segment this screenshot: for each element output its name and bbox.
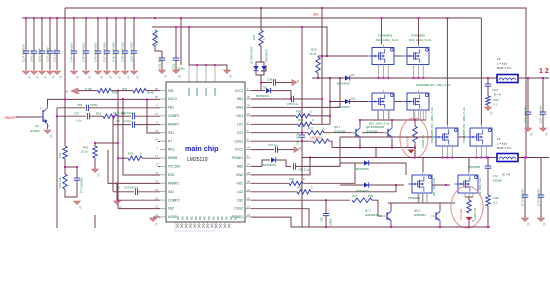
svg-text:2DB1694: 2DB1694 [366, 130, 378, 134]
wire R43 left [118, 157, 128, 159]
label C60 [287, 102, 299, 106]
svg-text:PSMN8R5 60V_100A_5.2m: PSMN8R5 60V_100A_5.2m [430, 106, 434, 143]
svg-text:R30: R30 [112, 91, 118, 95]
diode D8 [261, 66, 266, 71]
junction r42 top [94, 142, 96, 144]
transistor M7 [409, 172, 433, 203]
resistor R20 [259, 30, 263, 46]
wire bus3 [152, 27, 327, 56]
svg-text:0: 0 [98, 174, 100, 178]
wire gate2b [458, 136, 466, 138]
capacitor C9 ground [39, 71, 47, 80]
svg-text:main chip: main chip [185, 144, 219, 153]
label M3M4 under [369, 122, 391, 130]
svg-text:3: 3 [247, 154, 249, 158]
resistor R48 [486, 195, 490, 206]
label R30 [296, 110, 312, 114]
svg-text:PSMN8R5: PSMN8R5 [371, 125, 385, 129]
junction bus cap 2 [41, 17, 43, 19]
wire C57 left [57, 115, 86, 117]
net label cs1 [310, 136, 323, 140]
svg-text:17: 17 [155, 154, 158, 158]
net label 12 [539, 68, 549, 75]
svg-text:NC: NC [185, 216, 189, 220]
junction bus cap 4 [56, 17, 58, 19]
wire lowfet pin 377.8 [377, 110, 379, 120]
junction R20 top [260, 7, 262, 9]
junction bus3 x189 [188, 26, 190, 28]
svg-text:C65: C65 [320, 217, 324, 222]
wire R42 bot [94, 158, 96, 169]
svg-text:0: 0 [137, 76, 139, 80]
junction c73 [524, 157, 526, 159]
junction x330 b [329, 115, 331, 117]
wire q6 bot [391, 140, 393, 148]
wire AGND stub [153, 216, 160, 218]
junction bus2 cap 1 [85, 17, 87, 19]
label R37 [308, 127, 324, 131]
svg-text:0.003R 1%: 0.003R 1% [474, 207, 477, 220]
junction sw2 pin 452.3 [451, 157, 453, 159]
capacitor C4a [132, 121, 134, 127]
svg-text:L4: L4 [497, 137, 501, 141]
svg-text:19: 19 [155, 179, 158, 183]
svg-text:10: 10 [155, 112, 158, 116]
capacitor C9 [38, 18, 46, 70]
svg-text:1000p: 1000p [90, 103, 98, 107]
wire lowfet pin 426 [425, 110, 427, 120]
svg-text:Q4: Q4 [35, 124, 39, 128]
wire q8 top [439, 203, 441, 209]
capacitor C48 [112, 18, 120, 70]
svg-text:0: 0 [128, 76, 130, 80]
svg-text:0.003R 1%: 0.003R 1% [421, 134, 425, 148]
svg-text:26: 26 [155, 95, 158, 99]
transistor Q6 [366, 125, 392, 140]
svg-text:C52: C52 [172, 63, 176, 69]
transistor M1 [369, 45, 395, 79]
junction sw pin 378.6 [378, 77, 380, 79]
capacitor C1 [22, 18, 30, 70]
junction sw pin 413.6 [413, 77, 415, 79]
capacitor C3a [132, 113, 134, 119]
label M7 [408, 165, 481, 200]
resistor R44 [63, 174, 67, 189]
wire gate1 [318, 55, 368, 57]
svg-text:HB1: HB1 [237, 97, 243, 101]
wire FB2 [118, 208, 160, 210]
svg-text:C70 1u: C70 1u [268, 143, 277, 147]
svg-text:1 2: 1 2 [539, 68, 549, 75]
capacitor C74 [537, 158, 545, 219]
wire lowfet pin 420.4 [419, 110, 421, 120]
label D14 [356, 189, 369, 193]
transistor Q4 2N7002 [30, 104, 50, 133]
svg-text:0: 0 [544, 223, 546, 227]
wire left stub bottom [94, 215, 96, 228]
diode D7 [250, 47, 259, 71]
wire HO1 right [310, 115, 330, 117]
capacitor C52 [172, 27, 180, 70]
wire x302 vert a [301, 27, 303, 135]
wire RAMP1 b [135, 124, 160, 126]
svg-text:C66 47u/25V: C66 47u/25V [524, 105, 528, 123]
svg-text:C49 4.7uF/63V: C49 4.7uF/63V [121, 42, 125, 62]
wire HB2 row [251, 160, 270, 166]
svg-text:C8 0.1uF: C8 0.1uF [30, 49, 34, 62]
svg-text:FB1: FB1 [168, 106, 174, 110]
resistor R30b [98, 88, 111, 92]
svg-text:0: 0 [110, 76, 112, 80]
wire HO1 row [251, 115, 296, 117]
junction q5 em [359, 147, 361, 149]
svg-text:8: 8 [157, 163, 159, 167]
capacitor C46 ground [95, 71, 103, 80]
svg-text:VIN: VIN [168, 89, 174, 93]
svg-text:1: 1 [40, 106, 42, 110]
label R38 [406, 134, 426, 148]
junction pgnd 469 [468, 226, 470, 228]
svg-text:1000pF: 1000pF [493, 179, 503, 183]
junction R27 top [154, 17, 156, 19]
svg-text:FB2: FB2 [168, 207, 174, 211]
wire x57 vertical [56, 108, 58, 228]
wire R2 right [117, 115, 131, 117]
label M6 [462, 106, 466, 143]
wire top pin stub 215 [214, 65, 216, 82]
wire C60 right [294, 98, 322, 100]
resistor R31 [313, 139, 329, 143]
svg-text:0: 0 [230, 75, 232, 79]
wire SW2 row [251, 158, 310, 175]
wire VOUT top bus [65, 8, 526, 158]
wire CS2 right [372, 200, 382, 216]
junction sw pin 383.4 [382, 77, 384, 79]
svg-text:C9 0.01uF: C9 0.01uF [38, 48, 42, 62]
junction l5 out [527, 77, 529, 79]
wire CS2 row [251, 199, 350, 201]
svg-text:26: 26 [247, 179, 250, 183]
svg-text:2DB1694: 2DB1694 [334, 130, 346, 134]
flag 0 vin [66, 88, 78, 94]
junction bus cap 3 [49, 17, 51, 19]
svg-text:11: 11 [155, 171, 158, 175]
diode D11 [345, 99, 350, 104]
junction c57 57 [56, 115, 58, 117]
wire VCC1 row [251, 90, 265, 92]
highlight ellipse 2 [451, 186, 483, 228]
wire ch2 pin 423 [422, 193, 424, 203]
label M2 [409, 34, 432, 43]
wire q5 top [359, 120, 361, 126]
svg-text:R36: R36 [298, 118, 304, 122]
svg-text:CS2: CS2 [237, 198, 243, 202]
svg-text:0: 0 [262, 38, 266, 40]
wire boost vert [321, 8, 323, 124]
wire pgnd bus [291, 226, 490, 228]
wire c55 r50 [487, 88, 489, 96]
junction top pgnd 197 [196, 64, 198, 66]
wire RT stub [158, 140, 160, 142]
svg-text:C56: C56 [77, 103, 83, 107]
junction r43 [117, 157, 119, 159]
svg-text:C73 47u/25V: C73 47u/25V [521, 188, 525, 206]
label R49 [459, 207, 477, 220]
wire x181 vertical [180, 18, 182, 65]
label D8 [265, 49, 269, 62]
svg-text:C58 1u: C58 1u [267, 78, 276, 82]
resistor R29 [316, 57, 320, 73]
ground AGND [150, 218, 158, 227]
label C58 [267, 78, 276, 82]
wire q5 q6 base [362, 132, 388, 134]
svg-text:21: 21 [247, 205, 250, 209]
junction c62 b [301, 140, 303, 142]
wire gateB row [432, 184, 450, 186]
capacitor C60 [291, 96, 293, 102]
svg-text:2DB1694G: 2DB1694G [365, 213, 379, 217]
wire d13 row [340, 163, 406, 175]
junction emitter r38 [414, 147, 416, 149]
svg-text:2DB1694: 2DB1694 [414, 213, 426, 217]
svg-text:C44 47uF/63V: C44 47uF/63V [70, 43, 74, 62]
junction r50 [487, 77, 489, 79]
capacitor C51 ground [159, 70, 167, 79]
junction lo2 gate [395, 184, 397, 186]
svg-text:NC: NC [189, 216, 193, 220]
wire ramp2 gnd [116, 183, 118, 201]
wire HO2 right [303, 163, 355, 183]
svg-text:R40: R40 [289, 177, 295, 181]
capacitor C45 ground [83, 71, 91, 80]
svg-text:R30: R30 [296, 110, 302, 114]
svg-text:60.4k: 60.4k [147, 91, 154, 95]
svg-text:PSMN8R5 60V_100A_5.2m: PSMN8R5 60V_100A_5.2m [462, 106, 466, 143]
svg-text:14: 14 [155, 137, 158, 141]
wire left vertical VOUT [64, 8, 66, 146]
junction sw2 pin 486.3 [485, 157, 487, 159]
svg-text:C57: C57 [74, 112, 80, 116]
wire SS1 stub [147, 99, 160, 133]
resistor R42 [93, 146, 97, 158]
svg-text:Q5 1: Q5 1 [334, 125, 341, 129]
svg-text:D7 BAT54WS: D7 BAT54WS [250, 47, 254, 64]
svg-text:C72: C72 [493, 174, 499, 178]
wire SS2 right [138, 191, 160, 193]
junction sw2 pin 447.4 [446, 157, 448, 159]
wire R44 bot [65, 189, 77, 197]
junction bus2 cap 5 [124, 17, 126, 19]
capacitor C47 ground [104, 71, 112, 80]
resistor R47 [352, 198, 372, 202]
label R2 [96, 112, 125, 116]
capacitor C57 [87, 113, 89, 119]
wire lowfet pin 389 [388, 110, 390, 120]
junction pgnd 391 [390, 226, 392, 228]
transistor M6 [467, 125, 493, 158]
wire r48 bot [487, 206, 489, 227]
junction bus2 cap 4 [115, 17, 117, 19]
wire r42 row [95, 142, 118, 144]
label R30 [112, 91, 118, 95]
resistor R31b [133, 88, 146, 92]
resistor R38 [413, 126, 417, 142]
label C70 [268, 143, 277, 147]
svg-text:0: 0 [119, 76, 121, 80]
wire m6 drain [480, 18, 482, 125]
svg-text:SW2: SW2 [236, 173, 243, 177]
svg-text:PGND: PGND [187, 88, 191, 96]
svg-text:0: 0 [528, 223, 530, 227]
junction bus2 cap 0 [73, 17, 75, 19]
junction sw pin 418.4 [417, 77, 419, 79]
svg-text:0: 0 [77, 76, 79, 80]
label C55 [493, 88, 502, 97]
svg-text:BAT54WS: BAT54WS [356, 167, 369, 171]
svg-text:NC: NC [211, 216, 215, 220]
wire c72 bot [487, 172, 489, 195]
svg-text:C45 47uF/63V: C45 47uF/63V [82, 43, 86, 62]
wire q5 bot [359, 140, 361, 148]
svg-text:VCC2: VCC2 [234, 148, 243, 152]
svg-text:R43: R43 [128, 152, 134, 156]
wire to D8 [261, 62, 264, 66]
junction pgnd 326 [325, 226, 327, 228]
bottom pin labels NC [176, 216, 237, 220]
capacitor C52 ground [173, 70, 181, 79]
label R27 [155, 32, 159, 46]
ground C77 [74, 201, 82, 210]
wire lowfet pin 414.8 [414, 110, 416, 120]
wire d9 out [251, 91, 291, 99]
capacitor C8 ground [31, 71, 39, 80]
power flag r38 [408, 150, 417, 156]
junction bus2 cap 2 [97, 17, 99, 19]
capacitor C70 [275, 146, 277, 152]
svg-text:PGND1: PGND1 [232, 156, 243, 160]
capacitor C65 [323, 200, 329, 227]
svg-text:DEMB: DEMB [168, 156, 177, 160]
svg-text:C61 0.1u: C61 0.1u [298, 168, 310, 172]
label C5 ss2 [116, 186, 139, 190]
wire C57 mid [90, 115, 103, 117]
junction m1 d [381, 17, 383, 19]
wire r49 top [468, 197, 470, 200]
svg-text:C77 56000p: C77 56000p [80, 177, 84, 193]
capacitor C58 ss2 [135, 189, 137, 195]
label M8 [433, 178, 482, 196]
svg-text:18: 18 [155, 196, 158, 200]
svg-text:23: 23 [247, 188, 250, 192]
wire r29 top [317, 56, 319, 57]
svg-text:2200p: 2200p [177, 67, 185, 71]
junction sw2 pin 481.4 [480, 157, 482, 159]
junction q5 [359, 119, 361, 121]
label R44 [58, 176, 62, 188]
svg-text:RAMP2: RAMP2 [168, 181, 179, 185]
label C72 [493, 174, 503, 183]
ground Q4 [44, 130, 52, 139]
svg-text:5.1: 5.1 [494, 201, 498, 205]
svg-text:0: 0 [310, 110, 312, 114]
svg-text:2: 2 [48, 124, 50, 128]
label M4 [416, 83, 451, 87]
svg-text:E = 0: E = 0 [494, 93, 501, 97]
svg-text:0: 0 [89, 76, 91, 80]
svg-text:Q8 1: Q8 1 [414, 209, 421, 213]
capacitor C50 ground [131, 71, 139, 80]
svg-text:2N7002: 2N7002 [30, 129, 40, 133]
label M1 [376, 34, 399, 43]
wire q6 top [391, 120, 393, 126]
svg-text:60V_100A_5.2m: 60V_100A_5.2m [409, 38, 432, 42]
wire C3a right [135, 115, 160, 117]
svg-text:C59 0.1u: C59 0.1u [287, 102, 299, 106]
wire CSG2 row [251, 209, 309, 227]
svg-text:CSG2: CSG2 [234, 207, 243, 211]
label R40 [289, 177, 305, 181]
svg-text:C47 4.7uF/63V: C47 4.7uF/63V [103, 42, 107, 62]
svg-text:L5: L5 [497, 57, 501, 61]
capacitor C47 [103, 18, 111, 70]
svg-text:C3: C3 [113, 111, 117, 115]
junction x302 top [301, 26, 303, 28]
capacitor C50 [130, 18, 138, 70]
wire CS1 right [324, 132, 356, 134]
label C77 [80, 177, 84, 193]
wire VCCDIS stub [158, 166, 160, 168]
svg-text:0: 0 [297, 80, 299, 84]
wire SS2 left [113, 191, 134, 193]
svg-text:0: 0 [53, 76, 55, 80]
capacitor C67 [539, 78, 547, 128]
svg-text:Q6 1: Q6 1 [366, 125, 373, 129]
wire VCC2 row [251, 149, 274, 151]
svg-text:0: 0 [29, 76, 31, 80]
svg-text:0: 0 [101, 76, 103, 80]
svg-text:0: 0 [37, 76, 39, 80]
capacitor C10 [46, 18, 54, 70]
junction d9 hb1 [290, 98, 292, 100]
label D13 [356, 167, 369, 171]
svg-text:R47: R47 [352, 194, 358, 198]
resistor R37 [308, 131, 324, 135]
junction bus cap 1 [33, 17, 35, 19]
wire c58 row b [261, 82, 272, 84]
svg-text:C51 0.1u: C51 0.1u [158, 56, 162, 69]
svg-text:0.1u: 0.1u [76, 119, 82, 123]
wire R43 right [142, 157, 160, 159]
svg-text:NC: NC [198, 216, 202, 220]
wire LO1 row [251, 123, 298, 125]
wire q8 bot [439, 223, 441, 227]
svg-text:BAT54WS: BAT54WS [256, 94, 269, 98]
junction r38 [414, 119, 416, 121]
wire SW2 bus [302, 157, 497, 159]
wire LO2 row [251, 191, 297, 193]
highlight ellipse 1 [400, 118, 428, 158]
svg-text:SNS HS2: SNS HS2 [459, 208, 463, 220]
junction pgnd 440 [439, 226, 441, 228]
junction sw2 [309, 157, 311, 159]
junction ss1 x147 [146, 98, 148, 100]
svg-text:PSMN8R5: PSMN8R5 [468, 165, 481, 169]
svg-text:27: 27 [247, 163, 250, 167]
wire CS1 row [251, 132, 308, 134]
label C4a [116, 119, 131, 123]
wire r29 bot [317, 73, 319, 78]
label R50 [494, 98, 500, 107]
